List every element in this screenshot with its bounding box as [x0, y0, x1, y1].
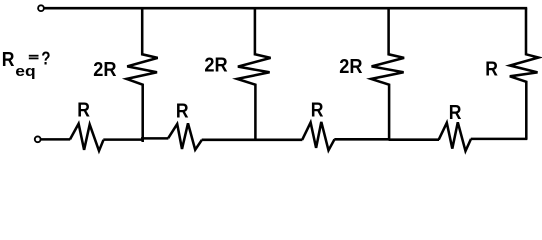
- wire: bottom segment node A to R6: [141, 137, 168, 140]
- wire: bottom segment R5 to node A: [103, 138, 143, 141]
- value label R for R5: [77, 99, 90, 122]
- wire: top bus: [44, 7, 527, 10]
- svg-text:R: R: [449, 102, 462, 125]
- value label 2R for R3: [339, 55, 362, 78]
- svg-text:2R: 2R: [339, 55, 362, 78]
- svg-text:?: ?: [41, 48, 50, 69]
- resistor R2 (2R, vertical) with leads, node B: [237, 8, 271, 141]
- resistor R4 (R, vertical right side) with leads: [510, 8, 539, 139]
- terminal T1 (top-left input): [38, 5, 44, 11]
- terminal T2 (bottom-left input): [35, 136, 41, 142]
- svg-text:2R: 2R: [204, 54, 227, 77]
- svg-text:R: R: [176, 100, 189, 123]
- resistor R3 (2R, vertical) with leads, node C: [371, 8, 404, 140]
- value label R for R7: [311, 99, 324, 122]
- value label R for R6: [176, 100, 189, 123]
- svg-text:R: R: [485, 58, 498, 81]
- wire: bottom segment R8 to right corner: [471, 138, 527, 141]
- value label 2R for R2: [204, 54, 227, 77]
- svg-text:R: R: [77, 99, 90, 122]
- resistor R5 (R, horizontal) zigzag: [70, 124, 104, 151]
- wire: bottom segment node C to R8: [389, 138, 439, 141]
- wire: bottom segment R6 to node B: [202, 139, 303, 142]
- label Req = ?: [2, 48, 51, 79]
- wire: bottom segment node B to R7: [334, 138, 388, 141]
- svg-text:eq: eq: [15, 63, 35, 79]
- resistor R1 (2R, vertical) with leads, node A: [127, 8, 158, 142]
- resistor R8 (R, horizontal) zigzag: [439, 122, 471, 151]
- value label R for R8: [449, 102, 462, 125]
- resistor R7 (R, horizontal) zigzag: [302, 122, 334, 150]
- svg-text:R: R: [311, 99, 324, 122]
- svg-text:2R: 2R: [93, 58, 116, 81]
- svg-text:R: R: [2, 49, 15, 72]
- value label 2R for R1: [93, 58, 116, 81]
- wire: bottom segment T2 to R5: [41, 138, 70, 141]
- resistor R6 (R, horizontal) zigzag: [168, 123, 202, 149]
- value label R for R4: [485, 58, 498, 81]
